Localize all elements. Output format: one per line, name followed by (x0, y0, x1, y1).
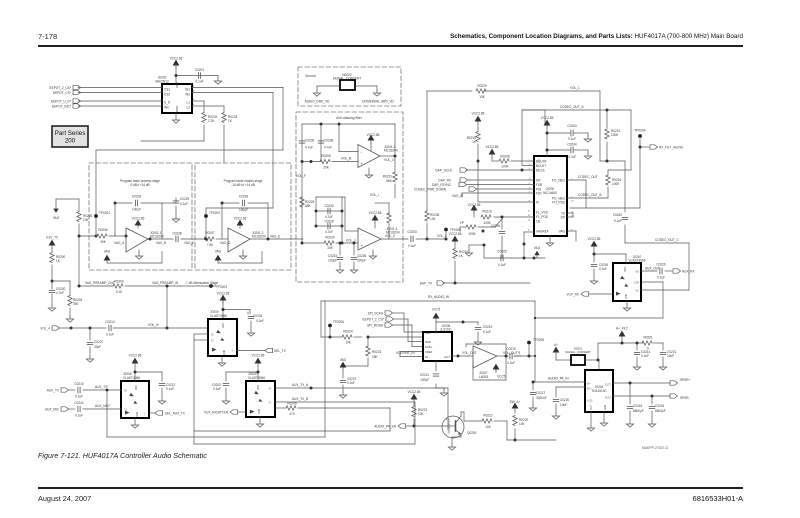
svg-text:R0208: R0208 (287, 402, 297, 406)
svg-text:PI: PI (536, 201, 539, 205)
svg-text:MCLK: MCLK (536, 169, 546, 173)
svg-text:(LV101): (LV101) (441, 328, 452, 332)
svg-text:0.1uF: 0.1uF (507, 361, 515, 365)
svg-text:-: - (361, 150, 363, 155)
svg-text:VOL_1: VOL_1 (570, 86, 580, 90)
svg-text:VDD: VDD (223, 323, 225, 328)
svg-text:2.2K: 2.2K (208, 119, 215, 123)
svg-text:CODEC_OUT_A: CODEC_OUT_A (560, 105, 584, 109)
svg-text:VCC2.85: VCC2.85 (369, 211, 382, 215)
svg-text:TP0202: TP0202 (209, 211, 220, 215)
svg-text:SPKR+: SPKR+ (680, 378, 691, 382)
svg-text:FSR: FSR (536, 183, 543, 187)
svg-text:100K: 100K (611, 133, 619, 137)
svg-text:C0217: C0217 (536, 391, 546, 395)
svg-text:4.7uF: 4.7uF (325, 230, 333, 234)
svg-text:INV: INV (587, 389, 591, 391)
svg-text:4.7uF: 4.7uF (56, 291, 64, 295)
svg-text:0.1uF: 0.1uF (256, 319, 264, 323)
svg-text:0.1uF: 0.1uF (75, 414, 83, 418)
svg-text:DATA: DATA (425, 345, 432, 349)
svg-text:10: 10 (528, 230, 531, 232)
svg-text:4.7uF: 4.7uF (325, 215, 333, 219)
svg-text:10K: 10K (418, 412, 424, 416)
svg-text:BCLKR: BCLKR (536, 160, 547, 164)
svg-text:FST: FST (536, 192, 542, 196)
svg-text:SEL_AUX_TX: SEL_AUX_TX (165, 411, 186, 415)
svg-text:GND: GND (224, 350, 226, 355)
svg-text:0.1uF: 0.1uF (657, 276, 665, 280)
svg-text:4.7uF: 4.7uF (305, 146, 313, 150)
svg-text:PO_PDS: PO_PDS (552, 201, 565, 205)
svg-text:0.1uF: 0.1uF (641, 354, 649, 358)
svg-text:LM301: LM301 (479, 375, 489, 379)
svg-text:-7 dB Attenuation Stage: -7 dB Attenuation Stage (185, 281, 218, 285)
svg-text:VCC2.85: VCC2.85 (449, 232, 462, 236)
svg-text:R0208: R0208 (500, 155, 510, 159)
svg-text:20: 20 (571, 201, 574, 203)
svg-text:DR: DR (536, 179, 541, 183)
svg-text:220pF: 220pF (357, 259, 366, 263)
svg-text:VDD: VDD (175, 82, 179, 88)
svg-text:X0: X0 (211, 335, 215, 337)
svg-text:Y0: Y0 (268, 389, 272, 391)
svg-text:0.1uF: 0.1uF (106, 333, 114, 337)
svg-text:C0215: C0215 (74, 382, 84, 386)
svg-text:100K: 100K (612, 182, 620, 186)
svg-text:10K: 10K (479, 95, 485, 99)
svg-text:R0222: R0222 (483, 414, 493, 418)
svg-text:VOL_F: VOL_F (296, 174, 306, 178)
svg-text:X0: X0 (124, 391, 128, 393)
svg-text:Y1: Y1 (268, 403, 272, 405)
svg-text:4.7uF: 4.7uF (568, 155, 576, 159)
svg-text:EEPOT_2_CS*: EEPOT_2_CS* (363, 317, 385, 321)
svg-text:EEPOT_U_D*: EEPOT_U_D* (51, 99, 72, 103)
svg-text:VAG: VAG (340, 358, 347, 362)
svg-text:-14 dB to +14 dB: -14 dB to +14 dB (231, 183, 255, 187)
svg-text:SIGNAL_CONVERT: SIGNAL_CONVERT (565, 350, 591, 354)
svg-text:OUT1: OUT1 (605, 385, 612, 387)
svg-text:14: 14 (528, 220, 531, 222)
svg-text:+: + (361, 161, 364, 166)
svg-text:VOL_K: VOL_K (385, 234, 396, 238)
svg-text:W1: W1 (185, 87, 190, 91)
svg-text:VOL_I: VOL_I (370, 193, 379, 197)
svg-text:20K: 20K (323, 166, 329, 170)
svg-text:0.1uF: 0.1uF (408, 244, 416, 248)
svg-text:VAG_E: VAG_E (270, 234, 280, 238)
svg-text:1K: 1K (228, 119, 233, 123)
svg-text:AUX_TX_B: AUX_TX_B (292, 397, 308, 401)
svg-text:DAP_DCLK: DAP_DCLK (435, 169, 452, 173)
svg-text:EEPOT_2_CS*: EEPOT_2_CS* (50, 86, 72, 90)
svg-text:CODEC_PWR_DOWN: CODEC_PWR_DOWN (414, 188, 447, 192)
svg-text:VOL_B: VOL_B (341, 157, 351, 161)
svg-text:TP0206: TP0206 (333, 320, 344, 324)
svg-text:10K: 10K (485, 425, 491, 429)
svg-text:IN: IN (425, 355, 428, 359)
svg-text:+: + (361, 244, 364, 249)
svg-text:AUDIO_PA_EN: AUDIO_PA_EN (374, 424, 396, 428)
svg-text:Ground: Ground (305, 74, 316, 78)
svg-text:VAG_B: VAG_B (156, 241, 166, 245)
svg-text:VUX_MICATTEN: VUX_MICATTEN (204, 410, 229, 414)
svg-text:VP: VP (460, 221, 464, 225)
svg-text:6800pF: 6800pF (655, 409, 666, 413)
svg-text:C0208: C0208 (324, 139, 334, 143)
svg-text:VOL_OUT*1: VOL_OUT*1 (503, 351, 521, 355)
svg-text:-: - (361, 232, 363, 237)
svg-text:VAG: VAG (104, 250, 111, 254)
svg-text:0.1uF: 0.1uF (483, 330, 491, 334)
svg-text:VCC2.85: VCC2.85 (367, 133, 380, 137)
svg-text:GND: GND (137, 412, 139, 417)
svg-text:A_55: A_55 (587, 400, 593, 403)
svg-text:UNIVERSAL GRD_VD: UNIVERSAL GRD_VD (362, 100, 394, 104)
svg-text:GND: GND (259, 409, 261, 414)
svg-text:1K: 1K (459, 254, 464, 258)
svg-text:VCC2.85: VCC2.85 (170, 57, 183, 61)
svg-text:AUX_RX: AUX_RX (682, 269, 695, 273)
svg-text:AUX_MIC*: AUX_MIC* (95, 404, 111, 408)
svg-text:X1: X1 (211, 341, 215, 343)
svg-text:DP: DP (561, 216, 565, 220)
svg-text:C0204: C0204 (567, 143, 577, 147)
svg-text:X1: X1 (124, 410, 128, 412)
svg-text:220pF: 220pF (328, 259, 337, 263)
svg-text:VAG_C: VAG_C (184, 241, 195, 245)
svg-text:0 dBu +14 dB: 0 dBu +14 dB (130, 183, 149, 187)
svg-text:0.1uF: 0.1uF (213, 387, 221, 391)
svg-text:SPKR-: SPKR- (680, 396, 690, 400)
svg-text:R0231: R0231 (383, 175, 393, 179)
svg-text:VCC2.85: VCC2.85 (472, 112, 485, 116)
svg-text:100K: 100K (501, 165, 509, 169)
svg-text:C0242: C0242 (74, 401, 84, 405)
svg-text:6800pF: 6800pF (633, 409, 644, 413)
svg-text:Y: Y (143, 414, 145, 416)
svg-text:SIGNAL_CONVERT: SIGNAL_CONVERT (333, 77, 362, 81)
svg-text:VAG_PREAMP_IN: VAG_PREAMP_IN (152, 281, 179, 285)
svg-text:VDD: VDD (258, 385, 260, 390)
svg-text:DAP_TX: DAP_TX (420, 281, 433, 285)
svg-text:GND: GND (626, 294, 628, 299)
svg-text:AUX_OUT: AUX_OUT (645, 267, 660, 271)
svg-text:VOL_L: VOL_L (437, 234, 447, 238)
svg-text:DAP_RX: DAP_RX (438, 179, 451, 183)
svg-text:L1: L1 (187, 101, 191, 105)
svg-text:C0210: C0210 (483, 325, 493, 329)
svg-text:C0232: C0232 (324, 204, 334, 208)
svg-text:CODEC_OUT: CODEC_OUT (578, 175, 598, 179)
svg-text:L2: L2 (187, 106, 191, 110)
svg-text:C0234: C0234 (253, 314, 263, 318)
svg-text:C0228: C0228 (324, 220, 334, 224)
svg-text:CS1: CS1 (164, 87, 170, 91)
svg-text:VLAST4066: VLAST4066 (629, 259, 646, 263)
svg-text:Anti-aliasing filter: Anti-aliasing filter (336, 116, 363, 120)
svg-text:VLAST4066: VLAST4066 (123, 376, 140, 380)
svg-text:VAG_A: VAG_A (114, 241, 125, 245)
svg-text:C0229: C0229 (180, 197, 190, 201)
svg-text:VDD: VDD (625, 267, 627, 272)
svg-text:VCC5: VCC5 (432, 308, 441, 312)
svg-text:VAG: VAG (559, 230, 566, 234)
svg-text:0.1uF: 0.1uF (568, 137, 576, 141)
svg-text:VCC2.85: VCC2.85 (486, 145, 499, 149)
svg-text:VOL_OUT: VOL_OUT (462, 351, 477, 355)
svg-text:W2: W2 (185, 92, 190, 96)
svg-text:C0243: C0243 (633, 404, 643, 408)
svg-text:DAP_FSYNC: DAP_FSYNC (432, 183, 452, 187)
svg-text:A+: A+ (554, 343, 558, 347)
svg-text:EEPOT_CS*: EEPOT_CS* (53, 91, 72, 95)
svg-text:OUT: OUT (591, 405, 593, 410)
svg-text:7.5K: 7.5K (207, 243, 214, 247)
svg-text:VOL_4: VOL_4 (384, 158, 394, 162)
svg-text:TP0201: TP0201 (99, 211, 110, 215)
svg-text:100uF: 100uF (239, 208, 248, 212)
svg-text:10K: 10K (345, 341, 351, 345)
svg-text:PO_NEG: PO_NEG (552, 179, 566, 183)
svg-text:OUT2: OUT2 (605, 398, 612, 400)
svg-text:INC: INC (164, 106, 170, 110)
svg-text:AUX_MIC: AUX_MIC (45, 407, 60, 411)
svg-text:U_D: U_D (164, 101, 171, 105)
svg-text:FL_PDS: FL_PDS (536, 215, 548, 219)
svg-text:VAG: VAG (215, 250, 222, 254)
svg-text:10K: 10K (519, 422, 525, 426)
svg-text:C0220: C0220 (560, 398, 570, 402)
svg-text:CODEC_OUT_B: CODEC_OUT_B (578, 193, 602, 197)
svg-text:DAD: DAD (425, 340, 431, 344)
svg-text:NO: NO (636, 272, 640, 274)
svg-text:39K: 39K (100, 240, 106, 244)
svg-text:VOL_4*: VOL_4* (148, 323, 160, 327)
svg-text:VCC: VCC (539, 158, 541, 163)
svg-text:C0240: C0240 (613, 213, 623, 217)
svg-text:1K: 1K (56, 259, 61, 263)
svg-text:68K: 68K (305, 204, 311, 208)
svg-text:C0238: C0238 (172, 232, 182, 236)
svg-text:IN+: IN+ (587, 384, 591, 386)
svg-text:VREF: VREF (425, 350, 433, 354)
svg-text:0.1uF: 0.1uF (614, 219, 622, 223)
svg-text:100K: 100K (468, 232, 476, 236)
svg-text:CLK: CLK (425, 331, 431, 335)
svg-text:R0207: R0207 (205, 231, 215, 235)
svg-text:C0201: C0201 (195, 68, 205, 72)
svg-text:0.1uF: 0.1uF (180, 202, 188, 206)
svg-text:TDA1519C: TDA1519C (591, 389, 607, 393)
svg-text:VLAST4066: VLAST4066 (248, 376, 265, 380)
svg-text:GND: GND (175, 106, 179, 112)
svg-text:TP0204: TP0204 (635, 129, 646, 133)
svg-text:VCC2.85: VCC2.85 (468, 203, 481, 207)
svg-text:EEPOT_INC*: EEPOT_INC* (52, 104, 72, 108)
svg-text:C0205: C0205 (497, 250, 507, 254)
svg-text:VCC2.85: VCC2.85 (217, 292, 230, 296)
svg-text:RX_FILT_AUDIO: RX_FILT_AUDIO (659, 145, 684, 149)
svg-text:SPI_SCKA: SPI_SCKA (368, 311, 384, 315)
svg-text:R0229: R0229 (477, 84, 487, 88)
svg-text:R0209: R0209 (114, 280, 124, 284)
svg-text:CODEC_OUT_C: CODEC_OUT_C (655, 238, 679, 242)
svg-text:VUX_RX: VUX_RX (566, 292, 579, 296)
svg-text:390: 390 (73, 302, 78, 306)
svg-text:AUDIO_PA_IN: AUDIO_PA_IN (548, 377, 569, 381)
svg-text:VLAST4066: VLAST4066 (210, 314, 227, 318)
svg-text:C0244: C0244 (655, 404, 665, 408)
svg-text:0.1uF: 0.1uF (166, 387, 174, 391)
svg-text:FL_VSS: FL_VSS (536, 211, 548, 215)
svg-text:C0203: C0203 (567, 124, 577, 128)
svg-text:AUX_TX: AUX_TX (47, 388, 60, 392)
svg-text:3300uF: 3300uF (536, 396, 547, 400)
svg-text:MC33204: MC33204 (150, 235, 164, 239)
svg-text:AUX_TX_A: AUX_TX_A (292, 383, 309, 387)
svg-text:C0236: C0236 (357, 254, 367, 258)
svg-text:VAG_PREAMP_OUT: VAG_PREAMP_OUT (85, 281, 115, 285)
svg-text:R0206: R0206 (98, 228, 108, 232)
svg-text:VAG_D: VAG_D (220, 241, 231, 245)
svg-text:VAG: VAG (53, 216, 60, 220)
svg-text:GND: GND (605, 405, 607, 410)
svg-text:TP0208: TP0208 (533, 338, 544, 342)
svg-text:R0201: R0201 (643, 336, 653, 340)
svg-text:VCC5: VCC5 (497, 375, 506, 379)
svg-text:NC: NC (636, 291, 640, 293)
svg-text:C0230: C0230 (305, 139, 315, 143)
svg-text:12: 12 (571, 212, 574, 214)
svg-text:200: 200 (65, 138, 76, 145)
svg-text:VCC2.85: VCC2.85 (408, 390, 421, 394)
svg-text:VOL/VRE_IN: VOL/VRE_IN (396, 351, 415, 355)
svg-text:MC14640: MC14640 (543, 191, 557, 195)
svg-text:BCLKT: BCLKT (536, 164, 546, 168)
svg-text:C0214: C0214 (105, 320, 115, 324)
svg-text:CS2: CS2 (164, 92, 170, 96)
svg-text:VDD: VDD (136, 385, 138, 390)
svg-text:Q0200: Q0200 (467, 431, 477, 435)
svg-text:AUX_TX*: AUX_TX* (95, 385, 109, 389)
svg-text:VCC2.85: VCC2.85 (588, 237, 601, 241)
svg-text:9.3V_TX: 9.3V_TX (46, 236, 59, 240)
svg-text:100uF: 100uF (132, 208, 141, 212)
svg-text:33K: 33K (327, 246, 333, 250)
svg-text:C0239: C0239 (239, 195, 249, 199)
svg-text:15: 15 (528, 211, 531, 213)
svg-text:VAG_W: VAG_W (452, 194, 463, 198)
svg-text:VOL_4: VOL_4 (40, 326, 50, 330)
svg-text:R0223: R0223 (372, 350, 382, 354)
svg-text:SPI_MOSA: SPI_MOSA (367, 323, 384, 327)
svg-text:OUT: OUT (444, 355, 450, 359)
svg-text:C0233: C0233 (328, 254, 338, 258)
svg-text:VCC2.85: VCC2.85 (132, 217, 145, 221)
svg-text:100uF: 100uF (420, 378, 429, 382)
svg-text:0.1uF: 0.1uF (498, 263, 506, 267)
svg-text:COM: COM (634, 283, 639, 285)
svg-text:VOL_J: VOL_J (346, 238, 356, 242)
svg-text:C0211: C0211 (420, 373, 429, 377)
svg-text:0.1uF: 0.1uF (75, 395, 83, 399)
svg-text:Y: Y (231, 351, 233, 353)
svg-text:MC33204: MC33204 (384, 149, 398, 153)
svg-text:68K: 68K (386, 179, 392, 183)
svg-text:AUDIO_GRD_VD: AUDIO_GRD_VD (305, 100, 331, 104)
svg-text:4.7uF: 4.7uF (324, 146, 332, 150)
svg-text:0.1uF: 0.1uF (347, 381, 355, 385)
svg-text:0.1uF: 0.1uF (599, 267, 607, 271)
svg-text:R0210: R0210 (482, 210, 492, 214)
svg-text:C0203: C0203 (407, 230, 417, 234)
svg-text:470: 470 (289, 412, 294, 416)
svg-text:VCC2.85: VCC2.85 (252, 354, 265, 358)
svg-text:18K: 18K (372, 355, 378, 359)
svg-text:MC33204: MC33204 (252, 235, 266, 239)
svg-text:9AU2N12: 9AU2N12 (155, 79, 169, 83)
svg-text:R0208: R0208 (321, 154, 331, 158)
svg-text:R0224: R0224 (343, 330, 353, 334)
svg-text:C0207: C0207 (94, 340, 104, 344)
svg-text:33uF: 33uF (94, 345, 101, 349)
svg-text:RX_AUDIO_IN: RX_AUDIO_IN (428, 295, 450, 299)
svg-text:SEL_TX: SEL_TX (274, 349, 287, 353)
svg-text:VCC2.85: VCC2.85 (129, 354, 142, 358)
svg-text:SW_A+: SW_A+ (510, 400, 521, 404)
svg-text:1B: 1B (536, 220, 540, 224)
svg-text:R0230: R0230 (325, 236, 335, 240)
svg-text:C0206: C0206 (491, 224, 501, 228)
svg-text:10uF: 10uF (667, 354, 674, 358)
svg-text:Part Series: Part Series (55, 130, 86, 137)
svg-text:0.1uF: 0.1uF (195, 80, 203, 84)
svg-text:C0209: C0209 (132, 195, 142, 199)
svg-text:VCC2.85: VCC2.85 (234, 217, 247, 221)
svg-text:10uF: 10uF (560, 403, 567, 407)
svg-text:VAG: VAG (534, 246, 541, 250)
svg-text:10K: 10K (83, 218, 89, 222)
svg-text:TP0203: TP0203 (216, 285, 227, 289)
svg-text:VAGREF: VAGREF (536, 230, 549, 234)
svg-text:VCC2.85: VCC2.85 (541, 116, 554, 120)
svg-text:9.1K: 9.1K (116, 290, 123, 294)
svg-text:13: 13 (571, 216, 574, 218)
svg-text:A+_FILT: A+_FILT (616, 327, 628, 331)
svg-text:10K: 10K (430, 217, 436, 221)
